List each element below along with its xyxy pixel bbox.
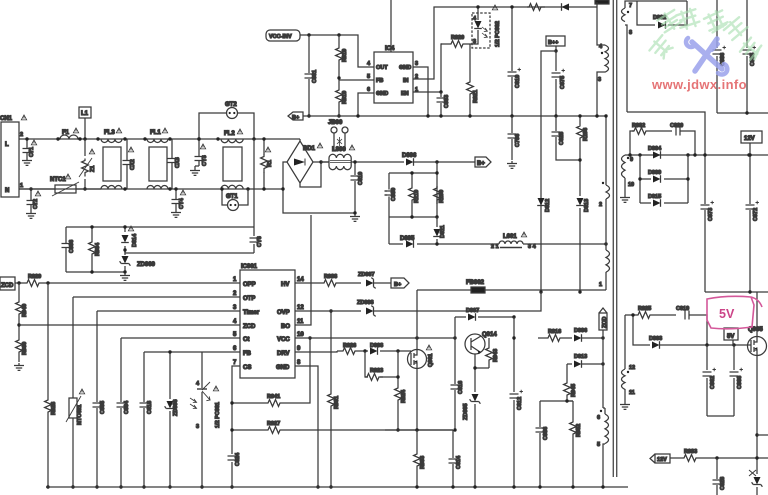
svg-text:5: 5 [233, 332, 237, 338]
svg-text:C973: C973 [708, 208, 714, 221]
wire OPP column [47, 283, 49, 398]
diode D906 [574, 328, 605, 342]
svg-text:D908: D908 [370, 343, 383, 349]
svg-text:C968: C968 [737, 376, 743, 389]
capacitor CX2 [123, 139, 137, 189]
svg-text:C914: C914 [456, 455, 462, 469]
svg-text:Ct: Ct [243, 337, 249, 343]
transformer primary winding 1 [599, 244, 610, 290]
svg-text:CX2: CX2 [130, 159, 136, 170]
transformer primary winding 2 [599, 114, 610, 244]
svg-text:L601: L601 [503, 234, 517, 240]
svg-text:R921: R921 [473, 90, 479, 103]
svg-text:JB00: JB00 [328, 120, 343, 126]
capacitor C910 [508, 5, 522, 117]
diode D915 [640, 194, 688, 207]
wire Q914 emitter [475, 354, 489, 392]
svg-text:R945: R945 [571, 384, 577, 397]
spark gap GT1 [220, 187, 248, 210]
spark gap GT2 [197, 102, 255, 141]
svg-text:D909: D909 [648, 170, 661, 176]
wire 5V return rail [707, 415, 734, 417]
resistor R209 [434, 171, 445, 218]
svg-text:R929: R929 [28, 274, 41, 280]
svg-text:C962: C962 [710, 376, 716, 389]
svg-text:GND: GND [399, 65, 411, 71]
wire FB to IC4 pin5 [339, 79, 374, 81]
svg-text:1/2 PC901: 1/2 PC901 [215, 402, 221, 428]
node label L1 [79, 107, 91, 141]
svg-text:ZD907: ZD907 [358, 272, 375, 278]
svg-text:C72: C72 [33, 199, 39, 209]
svg-text:C810: C810 [358, 172, 364, 185]
svg-text:2: 2 [233, 291, 237, 297]
wire CY6 column [253, 139, 255, 253]
resistor R210 [409, 171, 420, 218]
svg-text:D914: D914 [132, 233, 138, 247]
capacitor C919 [676, 306, 707, 345]
wire DRV pin9 [295, 351, 337, 352]
wire FB pin6 rail [144, 352, 240, 402]
svg-text:R932: R932 [632, 123, 645, 129]
svg-text:NTC1: NTC1 [50, 177, 66, 183]
svg-text:1/2 PC902: 1/2 PC902 [495, 21, 501, 47]
capacitor C908 [536, 401, 550, 489]
svg-text:12: 12 [297, 305, 304, 311]
resistor R945 [564, 364, 577, 401]
diode D903 [649, 336, 748, 349]
filter FL3 [96, 128, 126, 191]
capacitor CY3 [190, 137, 208, 175]
svg-text:C912: C912 [517, 397, 523, 410]
capacitor C926 [713, 458, 727, 495]
resistor R929 [15, 274, 240, 286]
diode D904 [638, 146, 689, 159]
svg-text:5: 5 [597, 442, 600, 448]
svg-text:4: 4 [196, 381, 200, 387]
svg-text:C926: C926 [720, 477, 726, 490]
resistor R931 [328, 309, 340, 488]
svg-text:C71: C71 [29, 147, 35, 157]
capacitor C905 [93, 401, 107, 489]
resistor R933 [670, 449, 768, 461]
ground R960 [14, 363, 24, 370]
svg-text:OTP: OTP [243, 296, 255, 302]
svg-text:C916: C916 [458, 381, 464, 394]
wire D903 branch [633, 315, 650, 345]
svg-text:D805: D805 [400, 236, 415, 242]
svg-text:IN: IN [403, 78, 409, 84]
wire C936 rail [717, 112, 768, 114]
svg-text:C972: C972 [753, 208, 759, 221]
svg-text:DRV: DRV [277, 351, 290, 357]
filter FL1 [143, 128, 171, 191]
svg-text:10: 10 [628, 182, 634, 188]
wire bridge output to L800 [321, 161, 329, 163]
svg-text:3: 3 [415, 61, 418, 67]
svg-text:8: 8 [297, 360, 301, 366]
capacitor C920 [670, 123, 697, 157]
svg-text:IC901: IC901 [241, 264, 258, 270]
svg-text:R943: R943 [493, 349, 499, 362]
wire ground bus [46, 486, 628, 488]
annotation pink 5V box [707, 296, 762, 328]
svg-text:Z1: Z1 [90, 166, 96, 172]
svg-text:C910: C910 [515, 75, 521, 88]
svg-text:R926: R926 [343, 343, 356, 349]
svg-text:6: 6 [367, 87, 370, 93]
resistor R928 [45, 398, 57, 489]
diode D912 [537, 198, 551, 294]
capacitor C924 [228, 452, 242, 489]
svg-text:1: 1 [20, 183, 23, 189]
wire VCC rail [295, 337, 455, 339]
svg-text:C920: C920 [670, 123, 683, 129]
svg-text:C975: C975 [560, 76, 566, 89]
capacitor C916 [451, 338, 465, 432]
svg-text:FL2: FL2 [224, 131, 235, 137]
capacitor CY6 [250, 236, 264, 247]
svg-text:VCC-INV: VCC-INV [269, 34, 292, 40]
resistor R952 [570, 401, 582, 489]
svg-text:Q914: Q914 [482, 332, 497, 338]
wire CY6 to D914 junction [125, 250, 254, 253]
capacitor C72 [26, 187, 41, 218]
transistor Q901 [406, 345, 434, 369]
net label 5V [724, 328, 738, 345]
resistor R943 [486, 338, 499, 368]
svg-text:R210: R210 [414, 190, 420, 203]
resistor R938 [295, 274, 361, 286]
svg-text:D903: D903 [649, 336, 662, 342]
watermark green characters [648, 7, 764, 61]
svg-text:F1: F1 [62, 130, 70, 136]
svg-text:C904: C904 [124, 400, 130, 414]
svg-text:R925: R925 [638, 306, 651, 312]
svg-text:ZCD: ZCD [602, 317, 608, 328]
resistor R927 [230, 421, 453, 433]
svg-text:Timer: Timer [243, 310, 260, 316]
svg-text:L1: L1 [81, 111, 89, 117]
wire IC4 pin6 feed [358, 93, 374, 116]
svg-text:N: N [5, 188, 9, 194]
transformer secondary winding 7-8 [622, 1, 688, 112]
svg-text:R952: R952 [576, 424, 582, 437]
diode D913 clamp [576, 198, 590, 294]
svg-text:4: 4 [233, 319, 237, 325]
transistor Q914 [465, 332, 497, 354]
svg-text:3: 3 [196, 424, 199, 430]
svg-text:R940: R940 [22, 304, 28, 317]
wire pin12 rail [625, 314, 636, 316]
wire L rail to bridge top [299, 139, 301, 141]
svg-text:OUT: OUT [376, 65, 388, 71]
svg-text:HV: HV [281, 282, 289, 288]
svg-text:www.jdwx.info: www.jdwx.info [651, 77, 747, 92]
capacitor C975 [552, 69, 567, 118]
svg-text:ZD909: ZD909 [137, 262, 156, 268]
capacitor C901 [305, 35, 319, 118]
wire B+ rail [303, 115, 606, 117]
svg-text:FL3: FL3 [104, 130, 115, 136]
connector CN1 [0, 115, 27, 197]
transistor Q905 [748, 327, 767, 356]
capacitor C973 [701, 153, 715, 292]
resistor R924 [395, 375, 407, 431]
capacitor C914 [449, 430, 463, 489]
svg-text:11: 11 [297, 319, 304, 325]
diode D806 [402, 153, 475, 166]
diode D911 [433, 217, 446, 244]
capacitor C71 [22, 137, 37, 165]
wire IC4 top stub [390, 0, 392, 52]
transformer primary winding 4-3 [595, 2, 608, 118]
ground secondary 12-11 [620, 402, 630, 409]
svg-text:R903: R903 [420, 456, 426, 469]
svg-text:NTC401: NTC401 [77, 405, 83, 425]
resistor R910 [336, 88, 348, 118]
wire snubber box bottom rail [66, 271, 125, 273]
svg-text:12: 12 [629, 365, 635, 371]
svg-text:C706: C706 [515, 134, 521, 147]
net label ZCD right [599, 308, 608, 330]
svg-text:D912: D912 [545, 199, 551, 212]
svg-text:R941: R941 [267, 394, 280, 400]
svg-text:GND: GND [276, 365, 290, 371]
svg-text:ZD905: ZD905 [463, 403, 469, 420]
svg-text:CY3: CY3 [202, 155, 208, 166]
wire source rail [385, 429, 453, 431]
svg-text:C930: C930 [391, 188, 397, 201]
capacitor C918 [140, 401, 154, 489]
connector JB00 [328, 120, 348, 151]
svg-text:D806: D806 [402, 153, 417, 159]
svg-text:IC4: IC4 [385, 46, 395, 52]
diode D907 [455, 308, 516, 338]
capacitor C706 [507, 116, 521, 168]
svg-text:9: 9 [630, 157, 633, 163]
transformer aux winding 6-5 [597, 408, 609, 489]
zener ZD907 [358, 272, 391, 288]
ground primary return [350, 214, 360, 221]
svg-text:Q901: Q901 [428, 354, 434, 367]
svg-text:FB902: FB902 [466, 280, 485, 286]
svg-text:6: 6 [597, 415, 600, 421]
net label B+ mid [391, 278, 409, 288]
svg-text:D907: D907 [466, 308, 479, 314]
wire BO sense column [295, 215, 311, 325]
wire Timer pin3 rail [97, 311, 240, 402]
svg-text:B+: B+ [394, 282, 401, 288]
svg-text:R209: R209 [439, 190, 445, 203]
svg-text:5V: 5V [727, 334, 734, 340]
svg-text:C901: C901 [312, 70, 318, 83]
svg-text:BD1: BD1 [303, 146, 316, 152]
diode D910 top [562, 3, 570, 11]
svg-text:R933: R933 [684, 449, 697, 455]
svg-text:R938: R938 [324, 274, 337, 280]
svg-text:3: 3 [598, 77, 601, 83]
wire VCC-INV to IC4 pin4 [300, 35, 374, 67]
zener ZD905 [463, 394, 480, 489]
svg-text:CX3: CX3 [175, 157, 181, 168]
svg-text:C933: C933 [444, 95, 450, 108]
diode D913 aux [567, 354, 605, 368]
capacitor C962 [703, 345, 717, 416]
svg-text:D913: D913 [574, 354, 587, 360]
net label ZCD left [0, 277, 15, 290]
diode D805 [389, 236, 499, 248]
varistor Z1 [79, 139, 96, 191]
svg-text:B+: B+ [292, 115, 299, 121]
svg-text:R928: R928 [51, 402, 57, 415]
capacitor C810 [351, 160, 365, 214]
zener ZD906 [165, 350, 179, 488]
svg-text:CY4: CY4 [179, 197, 185, 209]
capacitor C904 [117, 400, 131, 489]
capacitor CY4 [171, 187, 186, 217]
zener ZD909 [120, 256, 156, 274]
svg-text:FL1: FL1 [150, 130, 161, 136]
wire 12V rectifier rail [628, 154, 768, 156]
wire IC4 pin1 EN [413, 91, 441, 93]
svg-text:D913: D913 [584, 199, 590, 212]
svg-text:GND: GND [376, 91, 388, 97]
wire bridge left vertex to primary ground rail [283, 162, 355, 213]
svg-text:3 4: 3 4 [528, 244, 537, 250]
net label top edge [595, 0, 609, 4]
svg-text:R1: R1 [267, 160, 273, 167]
svg-text:5: 5 [367, 74, 370, 80]
resistor R923 [365, 351, 398, 380]
resistor R940 [16, 283, 28, 338]
svg-text:BO: BO [281, 324, 290, 330]
svg-text:7: 7 [233, 360, 237, 366]
svg-text:D911: D911 [440, 225, 446, 238]
wire snubber box top rail [66, 226, 254, 228]
resistor R925 [636, 306, 676, 318]
wire pin8 rail [627, 112, 705, 155]
wire ZCD pin4 rail [19, 324, 240, 326]
svg-text:R919: R919 [342, 49, 348, 62]
svg-text:R931: R931 [334, 396, 340, 409]
thermistor NTC401 [66, 389, 85, 489]
svg-text:ZD908: ZD908 [357, 300, 374, 306]
node EN junction [439, 90, 442, 93]
svg-text:14: 14 [297, 277, 304, 283]
wire IC4 pin3 to B+ rail [413, 67, 428, 116]
diode D909 [638, 155, 689, 203]
resistor R941 [230, 336, 311, 406]
svg-text:3: 3 [473, 39, 476, 45]
svg-text:C925: C925 [559, 132, 565, 145]
svg-text:R927: R927 [267, 421, 280, 427]
fuse F1 [56, 128, 81, 141]
svg-text:B+: B+ [477, 161, 485, 167]
svg-text:10: 10 [297, 332, 304, 338]
svg-text:R916: R916 [548, 329, 561, 335]
controller IC901 [233, 264, 304, 378]
net label 12V bottom [650, 454, 670, 463]
wire B++ to clamp [541, 51, 556, 292]
transformer secondary winding 9-10 [622, 155, 635, 195]
resistor R934 [89, 225, 101, 273]
transformer T901 core [613, 0, 616, 477]
resistor R206 [577, 114, 589, 196]
svg-text:C924: C924 [235, 452, 241, 466]
svg-text:ZD906: ZD906 [173, 399, 179, 416]
svg-text:GT1: GT1 [226, 194, 238, 200]
diode D908 [363, 343, 406, 355]
svg-text:C906: C906 [69, 240, 75, 253]
svg-text:1: 1 [233, 277, 237, 283]
node bridge output [319, 160, 322, 163]
svg-text:EN: EN [401, 91, 409, 97]
capacitor C930 [385, 188, 398, 201]
ground secondary 9-10 [620, 195, 630, 202]
svg-text:D906: D906 [574, 328, 587, 334]
wire bridge bottom jog [300, 162, 321, 187]
wire source column [416, 369, 418, 430]
capacitor C933 [437, 92, 451, 118]
svg-text:VCC: VCC [277, 337, 290, 343]
svg-text:7: 7 [629, 3, 632, 9]
wire Q905 source column [756, 356, 758, 474]
optocoupler PC901 [190, 352, 221, 489]
bridge rectifier BD1 [287, 141, 323, 183]
wire GND pin8 column [295, 366, 318, 487]
zener ZD927 [749, 470, 762, 495]
svg-text:2 1: 2 1 [491, 244, 499, 250]
resistor R960 [16, 338, 28, 362]
svg-text:11: 11 [629, 390, 635, 396]
svg-text:4: 4 [367, 61, 371, 67]
svg-text:1: 1 [599, 282, 602, 288]
svg-text:R924: R924 [401, 389, 407, 403]
svg-text:5V: 5V [719, 307, 735, 321]
svg-text:FB: FB [376, 78, 383, 84]
capacitor CX3 [168, 139, 182, 189]
node R919 top [337, 33, 340, 36]
svg-text:C986: C986 [543, 427, 549, 440]
svg-text:C918: C918 [147, 401, 153, 414]
thermistor NTC1 [19, 174, 101, 196]
net label 12V top [741, 131, 762, 157]
capacitor C936 b [743, 0, 757, 113]
net label B+ out [475, 157, 491, 167]
wire L rail [19, 138, 300, 140]
svg-text:R920: R920 [451, 35, 464, 41]
svg-text:OPP: OPP [243, 282, 256, 288]
resistor R921 [467, 44, 479, 118]
capacitor C912 [510, 317, 524, 489]
net label B+ left [288, 112, 303, 121]
op-amp IC4 [367, 46, 418, 103]
wire OTP pin2 rail [73, 297, 240, 398]
transformer secondary winding 12-11 [622, 315, 636, 402]
diode D902 [637, 1, 687, 29]
svg-text:CS: CS [243, 365, 251, 371]
svg-text:6: 6 [233, 346, 237, 352]
wire C908 rail [540, 400, 573, 402]
resistor R903 [414, 430, 426, 489]
svg-text:R910: R910 [342, 91, 348, 104]
svg-text:R934: R934 [95, 242, 101, 256]
svg-text:C905: C905 [100, 401, 106, 414]
wire ZCD column [602, 330, 604, 408]
wire drain column [416, 290, 418, 349]
resistor R932 [628, 123, 672, 157]
